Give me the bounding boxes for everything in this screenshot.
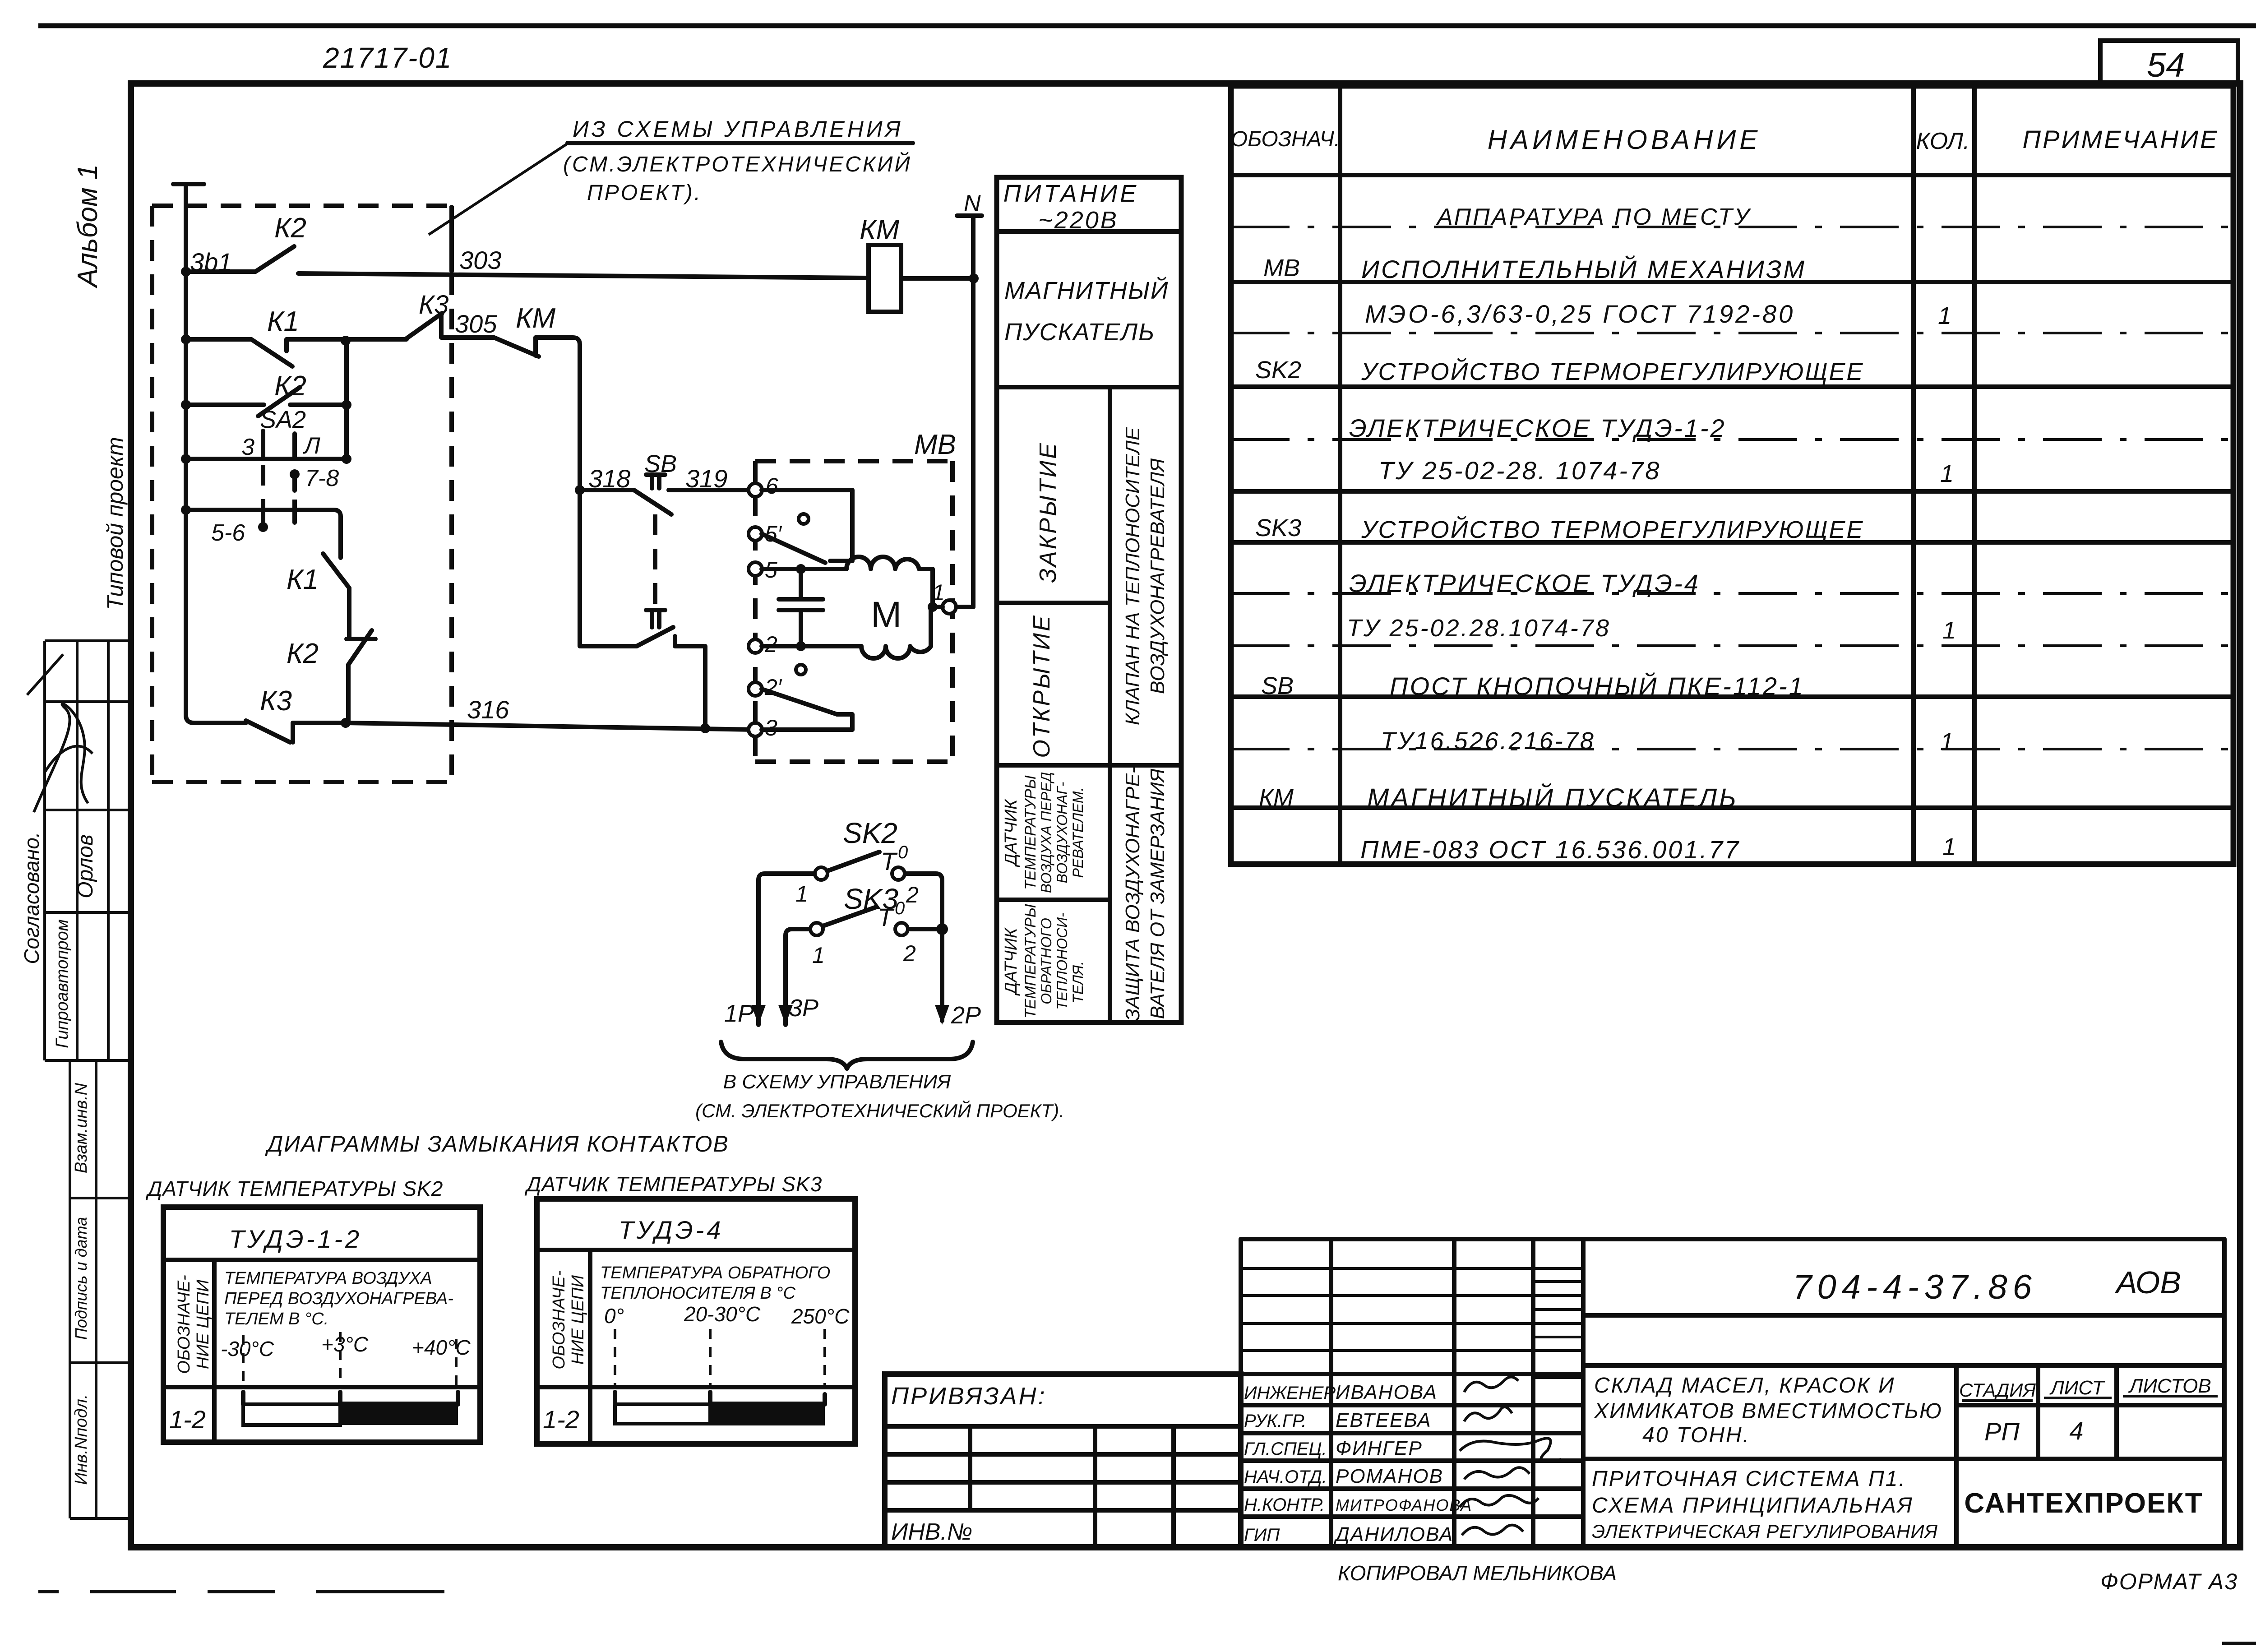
svg-text:3: 3 <box>241 434 254 460</box>
svg-text:МИТРОФАНОВА: МИТРОФАНОВА <box>1336 1496 1472 1514</box>
svg-text:SB: SB <box>644 450 677 477</box>
svg-text:Т: Т <box>878 903 895 931</box>
svg-text:ФОРМАТ А3: ФОРМАТ А3 <box>2100 1569 2238 1594</box>
svg-text:ЗАКРЫТИЕ: ЗАКРЫТИЕ <box>1035 441 1061 583</box>
svg-text:АППАРАТУРА ПО МЕСТУ: АППАРАТУРА ПО МЕСТУ <box>1436 204 1752 230</box>
svg-text:Инв.Nподл.: Инв.Nподл. <box>72 1394 91 1485</box>
svg-text:ТЕМПЕРАТУРЫ: ТЕМПЕРАТУРЫ <box>1022 775 1039 890</box>
svg-text:2′: 2′ <box>764 675 782 700</box>
svg-text:250°С: 250°С <box>791 1305 850 1328</box>
svg-text:1: 1 <box>932 580 945 605</box>
svg-text:ЭЛЕКТРИЧЕСКАЯ РЕГУЛИРОВАНИЯ: ЭЛЕКТРИЧЕСКАЯ РЕГУЛИРОВАНИЯ <box>1592 1521 1938 1542</box>
svg-text:2: 2 <box>906 882 919 907</box>
svg-text:1: 1 <box>1940 728 1954 755</box>
svg-text:ДАТЧИК ТЕМПЕРАТУРЫ SK2: ДАТЧИК ТЕМПЕРАТУРЫ SK2 <box>145 1177 443 1200</box>
svg-text:-30°С: -30°С <box>221 1337 274 1360</box>
svg-text:ДАНИЛОВА: ДАНИЛОВА <box>1333 1523 1453 1546</box>
svg-text:КМ: КМ <box>860 214 900 245</box>
svg-text:+40°С: +40°С <box>412 1336 471 1359</box>
svg-text:К3: К3 <box>260 685 292 717</box>
svg-text:Подпись и дата: Подпись и дата <box>72 1217 90 1340</box>
svg-text:Л: Л <box>303 433 320 459</box>
svg-text:ОБОЗНАЧЕ-: ОБОЗНАЧЕ- <box>550 1270 569 1369</box>
svg-text:РЕВАТЕЛЕМ.: РЕВАТЕЛЕМ. <box>1070 787 1086 878</box>
svg-text:5′: 5′ <box>765 521 782 546</box>
svg-text:+3°С: +3°С <box>321 1333 369 1356</box>
svg-text:SK2: SK2 <box>1255 356 1301 384</box>
svg-text:ПМЕ-083 ОСТ 16.536.001.77: ПМЕ-083 ОСТ 16.536.001.77 <box>1360 835 1740 864</box>
svg-text:ИЗ СХЕМЫ УПРАВЛЕНИЯ: ИЗ СХЕМЫ УПРАВЛЕНИЯ <box>573 116 903 142</box>
svg-text:ВАТЕЛЯ ОТ ЗАМЕРЗАНИЯ: ВАТЕЛЯ ОТ ЗАМЕРЗАНИЯ <box>1146 768 1169 1019</box>
svg-text:Т: Т <box>881 847 898 875</box>
svg-text:МАГНИТНЫЙ ПУСКАТЕЛЬ: МАГНИТНЫЙ ПУСКАТЕЛЬ <box>1367 783 1738 813</box>
svg-text:ПОСТ КНОПОЧНЫЙ ПКЕ-112-1: ПОСТ КНОПОЧНЫЙ ПКЕ-112-1 <box>1390 672 1805 700</box>
svg-text:ТЕМПЕРАТУРА ВОЗДУХА: ТЕМПЕРАТУРА ВОЗДУХА <box>224 1269 432 1288</box>
svg-text:РП: РП <box>1984 1417 2020 1446</box>
svg-text:54: 54 <box>2147 46 2185 84</box>
svg-text:ДАТЧИК: ДАТЧИК <box>1002 927 1021 996</box>
svg-text:ИВАНОВА: ИВАНОВА <box>1336 1381 1438 1403</box>
svg-text:ДИАГРАММЫ ЗАМЫКАНИЯ КОНТАКТО: ДИАГРАММЫ ЗАМЫКАНИЯ КОНТАКТОВ <box>265 1131 729 1157</box>
svg-text:1: 1 <box>812 943 825 968</box>
svg-text:3b1: 3b1 <box>190 248 232 276</box>
svg-text:Орлов: Орлов <box>74 834 97 898</box>
svg-text:УСТРОЙСТВО ТЕРМОРЕГУЛИРУЮЩЕЕ: УСТРОЙСТВО ТЕРМОРЕГУЛИРУЮЩЕЕ <box>1361 358 1864 385</box>
svg-text:КМ: КМ <box>1259 784 1294 811</box>
svg-text:ЕВТЕЕВА: ЕВТЕЕВА <box>1336 1409 1432 1431</box>
svg-text:Типовой проект: Типовой проект <box>102 437 128 610</box>
svg-text:ВОЗДУХОНАГ-: ВОЗДУХОНАГ- <box>1054 782 1070 884</box>
svg-text:0: 0 <box>895 898 905 918</box>
svg-text:НИЕ ЦЕПИ: НИЕ ЦЕПИ <box>569 1275 587 1365</box>
svg-text:Н.КОНТР.: Н.КОНТР. <box>1244 1495 1325 1515</box>
svg-text:SA2: SA2 <box>260 406 306 433</box>
svg-text:К1: К1 <box>287 564 319 595</box>
svg-text:РОМАНОВ: РОМАНОВ <box>1336 1465 1443 1487</box>
svg-text:СТАДИЯ: СТАДИЯ <box>1959 1379 2036 1401</box>
svg-text:2Р: 2Р <box>951 1002 981 1029</box>
svg-text:К1: К1 <box>267 306 299 337</box>
svg-text:ОБРАТНОГО: ОБРАТНОГО <box>1038 918 1054 1004</box>
svg-text:ЭЛЕКТРИЧЕСКОЕ ТУДЭ-4: ЭЛЕКТРИЧЕСКОЕ ТУДЭ-4 <box>1349 569 1700 597</box>
svg-text:ТЕЛЯ.: ТЕЛЯ. <box>1070 961 1086 1004</box>
svg-text:ТУ16.526.216-78: ТУ16.526.216-78 <box>1381 727 1595 754</box>
svg-text:ХИМИКАТОВ ВМЕСТИМОСТЬЮ: ХИМИКАТОВ ВМЕСТИМОСТЬЮ <box>1594 1399 1942 1423</box>
svg-text:НАИМЕНОВАНИЕ: НАИМЕНОВАНИЕ <box>1488 125 1761 155</box>
svg-text:ИНЖЕНЕР: ИНЖЕНЕР <box>1244 1383 1336 1403</box>
svg-text:ТЕМПЕРАТУРА ОБРАТНОГО: ТЕМПЕРАТУРА ОБРАТНОГО <box>600 1263 830 1282</box>
svg-text:Гипроавтопром: Гипроавтопром <box>53 919 72 1048</box>
svg-text:2: 2 <box>764 632 777 657</box>
svg-text:(СМ. ЭЛЕКТРОТЕХНИЧЕСКИЙ ПРОЕК: (СМ. ЭЛЕКТРОТЕХНИЧЕСКИЙ ПРОЕКТ). <box>695 1100 1064 1121</box>
svg-text:4: 4 <box>2069 1416 2083 1445</box>
svg-text:1: 1 <box>1942 833 1956 861</box>
svg-text:К2: К2 <box>274 370 306 402</box>
svg-text:319: 319 <box>685 464 727 493</box>
svg-text:ВОЗДУХОНАГРЕВАТЕЛЯ: ВОЗДУХОНАГРЕВАТЕЛЯ <box>1146 458 1169 694</box>
svg-text:ТЕПЛОНОСИ-: ТЕПЛОНОСИ- <box>1054 912 1070 1010</box>
svg-text:КОПИРОВАЛ МЕЛЬНИКОВА: КОПИРОВАЛ МЕЛЬНИКОВА <box>1338 1561 1617 1585</box>
svg-text:N: N <box>964 190 981 217</box>
svg-text:В СХЕМУ УПРАВЛЕНИЯ: В СХЕМУ УПРАВЛЕНИЯ <box>723 1071 951 1093</box>
svg-text:1: 1 <box>1938 302 1951 329</box>
svg-text:303: 303 <box>459 246 501 274</box>
svg-text:ВОЗДУХА ПЕРЕД: ВОЗДУХА ПЕРЕД <box>1038 772 1054 893</box>
svg-text:318: 318 <box>588 464 630 493</box>
svg-text:САНТЕХПРОЕКТ: САНТЕХПРОЕКТ <box>1964 1488 2203 1519</box>
svg-text:SK3: SK3 <box>1255 514 1301 541</box>
svg-text:МВ: МВ <box>1263 255 1300 282</box>
svg-text:НИЕ ЦЕПИ: НИЕ ЦЕПИ <box>194 1279 213 1369</box>
svg-text:3Р: 3Р <box>789 995 818 1022</box>
svg-text:Альбом 1: Альбом 1 <box>72 164 103 289</box>
svg-text:5-6: 5-6 <box>211 520 245 546</box>
svg-text:ПИТАНИЕ: ПИТАНИЕ <box>1003 180 1139 207</box>
svg-text:МАГНИТНЫЙ: МАГНИТНЫЙ <box>1004 277 1169 304</box>
svg-text:2: 2 <box>903 941 916 966</box>
svg-text:АОВ: АОВ <box>2114 1265 2181 1300</box>
svg-text:ПРИТОЧНАЯ СИСТЕМА П1.: ПРИТОЧНАЯ СИСТЕМА П1. <box>1592 1467 1906 1491</box>
svg-text:МЭО-6,3/63-0,25 ГОСТ 7192-8: МЭО-6,3/63-0,25 ГОСТ 7192-80 <box>1365 300 1795 328</box>
svg-text:ОБОЗНАЧЕ-: ОБОЗНАЧЕ- <box>175 1275 194 1374</box>
svg-text:К2: К2 <box>287 638 319 669</box>
svg-text:Взам.инв.N: Взам.инв.N <box>72 1083 91 1173</box>
svg-text:ЛИСТ: ЛИСТ <box>2049 1377 2106 1399</box>
svg-text:7-8: 7-8 <box>305 465 339 491</box>
svg-text:ПРИМЕЧАНИЕ: ПРИМЕЧАНИЕ <box>2023 125 2219 153</box>
svg-text:ЗАЩИТА ВОЗДУХОНАГРЕ-: ЗАЩИТА ВОЗДУХОНАГРЕ- <box>1122 767 1144 1021</box>
svg-text:1: 1 <box>1942 617 1956 644</box>
svg-text:ИСПОЛНИТЕЛЬНЫЙ МЕХАНИЗМ: ИСПОЛНИТЕЛЬНЫЙ МЕХАНИЗМ <box>1361 255 1806 283</box>
svg-text:~220В: ~220В <box>1038 207 1119 234</box>
svg-text:СКЛАД МАСЕЛ, КРАСОК И: СКЛАД МАСЕЛ, КРАСОК И <box>1594 1374 1895 1397</box>
svg-text:305: 305 <box>455 310 497 338</box>
svg-text:ТУ 25-02-28. 1074-78: ТУ 25-02-28. 1074-78 <box>1378 456 1661 485</box>
svg-text:704-4-37.86: 704-4-37.86 <box>1793 1268 2037 1306</box>
svg-text:ТУДЭ-4: ТУДЭ-4 <box>619 1216 724 1244</box>
svg-text:ЭЛЕКТРИЧЕСКОЕ ТУДЭ-1-2: ЭЛЕКТРИЧЕСКОЕ ТУДЭ-1-2 <box>1349 414 1726 442</box>
svg-text:КМ: КМ <box>516 303 556 334</box>
svg-text:СХЕМА ПРИНЦИПИАЛЬНАЯ: СХЕМА ПРИНЦИПИАЛЬНАЯ <box>1592 1494 1914 1518</box>
svg-text:ПУСКАТЕЛЬ: ПУСКАТЕЛЬ <box>1004 319 1155 346</box>
svg-text:ГИП: ГИП <box>1244 1525 1280 1545</box>
svg-text:20-30°С: 20-30°С <box>684 1302 761 1326</box>
svg-text:ТЕПЛОНОСИТЕЛЯ В °С: ТЕПЛОНОСИТЕЛЯ В °С <box>600 1284 795 1303</box>
svg-text:1: 1 <box>1940 460 1954 487</box>
svg-text:5: 5 <box>765 557 777 583</box>
svg-text:К2: К2 <box>274 213 306 244</box>
svg-text:ТЕЛЕМ В °С.: ТЕЛЕМ В °С. <box>224 1310 328 1328</box>
svg-text:РУК.ГР.: РУК.ГР. <box>1244 1411 1306 1431</box>
svg-text:1Р: 1Р <box>724 1000 754 1027</box>
svg-text:SK2: SK2 <box>843 817 897 849</box>
svg-text:ПЕРЕД ВОЗДУХОНАГРЕВА-: ПЕРЕД ВОЗДУХОНАГРЕВА- <box>224 1289 453 1308</box>
svg-text:К3: К3 <box>419 290 448 319</box>
svg-text:SB: SB <box>1261 672 1294 699</box>
svg-text:1-2: 1-2 <box>543 1405 579 1434</box>
svg-text:ЛИСТОВ: ЛИСТОВ <box>2128 1375 2211 1397</box>
svg-text:ТУ 25-02.28.1074-78: ТУ 25-02.28.1074-78 <box>1347 615 1611 642</box>
svg-text:0°: 0° <box>604 1304 624 1328</box>
svg-text:ФИНГЕР: ФИНГЕР <box>1336 1437 1423 1459</box>
svg-text:ТЕМПЕРАТУРЫ: ТЕМПЕРАТУРЫ <box>1022 904 1039 1018</box>
svg-text:3: 3 <box>765 715 777 740</box>
svg-text:ДАТЧИК: ДАТЧИК <box>1002 798 1021 867</box>
svg-text:М: М <box>871 594 901 635</box>
svg-text:ТУДЭ-1-2: ТУДЭ-1-2 <box>229 1225 362 1253</box>
svg-text:6: 6 <box>766 473 778 499</box>
svg-text:ОТКРЫТИЕ: ОТКРЫТИЕ <box>1029 614 1055 758</box>
svg-text:Согласовано.: Согласовано. <box>20 832 43 964</box>
svg-text:ОБОЗНАЧ.: ОБОЗНАЧ. <box>1231 127 1340 151</box>
svg-text:ДАТЧИК ТЕМПЕРАТУРЫ SK3: ДАТЧИК ТЕМПЕРАТУРЫ SK3 <box>524 1172 822 1196</box>
svg-text:1-2: 1-2 <box>169 1405 206 1434</box>
svg-text:КОЛ.: КОЛ. <box>1916 128 1970 154</box>
svg-text:21717-01: 21717-01 <box>323 42 452 74</box>
svg-text:МВ: МВ <box>914 429 956 460</box>
svg-text:ГЛ.СПЕЦ.: ГЛ.СПЕЦ. <box>1244 1439 1327 1459</box>
svg-text:40 ТОНН.: 40 ТОНН. <box>1642 1423 1750 1447</box>
svg-text:КЛАПАН НА ТЕПЛОНОСИТЕЛЕ: КЛАПАН НА ТЕПЛОНОСИТЕЛЕ <box>1122 427 1144 725</box>
svg-text:НАЧ.ОТД.: НАЧ.ОТД. <box>1244 1467 1327 1487</box>
svg-text:ПРОЕКТ).: ПРОЕКТ). <box>587 181 702 205</box>
svg-text:ИНВ.№: ИНВ.№ <box>891 1519 972 1545</box>
svg-text:УСТРОЙСТВО ТЕРМОРЕГУЛИРУЮЩЕЕ: УСТРОЙСТВО ТЕРМОРЕГУЛИРУЮЩЕЕ <box>1361 516 1864 543</box>
svg-text:0: 0 <box>898 842 908 862</box>
svg-text:316: 316 <box>467 695 509 724</box>
svg-text:(СМ.ЭЛЕКТРОТЕХНИЧЕСКИЙ: (СМ.ЭЛЕКТРОТЕХНИЧЕСКИЙ <box>563 152 912 176</box>
svg-text:1: 1 <box>795 881 808 907</box>
svg-text:ПРИВЯЗАН:: ПРИВЯЗАН: <box>891 1383 1047 1410</box>
